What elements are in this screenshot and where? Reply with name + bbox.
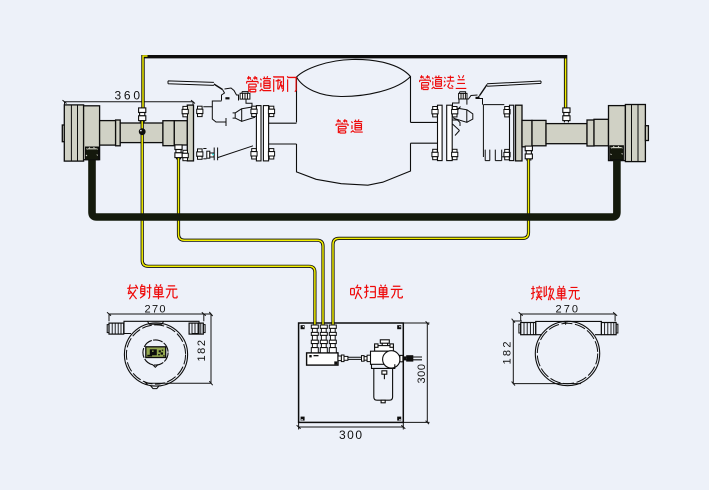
label 管道 pipe — [336, 119, 348, 133]
left transducer top fitting — [139, 108, 146, 123]
right pipe-valve flange pair — [438, 105, 453, 160]
body lower — [203, 146, 253, 160]
label 发射单元 transmit unit — [127, 284, 137, 299]
left transducer center dot — [139, 128, 146, 135]
svg-text:360: 360 — [115, 89, 141, 103]
stem nut — [240, 93, 250, 99]
bracket — [467, 95, 483, 105]
dim 300 purge bottom — [299, 422, 404, 429]
right outlet — [400, 355, 403, 361]
left connector — [521, 323, 536, 335]
feet — [485, 150, 502, 161]
yellow wire 3: right fitting to purge stack3 — [333, 158, 529, 326]
dim 270/182 right unit — [521, 314, 615, 321]
flange bolts (left pair) — [251, 106, 257, 116]
stem nut — [459, 93, 467, 99]
inner window circle — [143, 340, 168, 365]
svg-text:300: 300 — [416, 364, 428, 384]
manifold outlet to filter — [338, 355, 371, 362]
purge unit fitting stacks — [311, 325, 318, 353]
display — [146, 347, 166, 358]
yellow wire 2: left flange fitting to purge stack2 — [179, 156, 324, 326]
circle — [535, 321, 599, 385]
dim 270 left unit — [109, 314, 211, 383]
handle — [168, 81, 214, 86]
filter-regulator — [371, 340, 423, 403]
svg-text:182: 182 — [502, 342, 514, 365]
blob outline — [297, 59, 411, 122]
left valve-pipe flange pair — [256, 106, 268, 161]
manifold block — [307, 353, 338, 365]
label 接收单元 receive unit — [531, 286, 542, 300]
left gland — [86, 147, 99, 160]
label 吹扫单元 purge unit — [351, 285, 362, 299]
right gland — [610, 146, 624, 160]
dim 360 top-left — [65, 102, 194, 105]
svg-text:270: 270 — [145, 303, 166, 315]
small fitting with cyan — [207, 151, 210, 158]
left flange bottom fitting — [175, 145, 182, 160]
right connector — [601, 323, 616, 335]
yellow wire 1: left transducer dot to purge stack1 — [142, 121, 315, 326]
right top fitting — [563, 108, 570, 123]
bowtie mirrored — [454, 108, 473, 123]
svg-text:182: 182 — [196, 340, 208, 362]
right connector — [189, 323, 203, 334]
thick black cable between transducers — [92, 158, 617, 217]
bottom tab — [150, 385, 159, 388]
body upper outline — [203, 99, 252, 107]
label 管道法兰 pipe flange — [420, 75, 431, 89]
bowtie wedges — [233, 107, 255, 122]
dim 300 purge right — [403, 323, 429, 422]
flange bolts (right pair) — [432, 107, 438, 117]
right transducer flange bolts — [504, 107, 510, 117]
left connection stubs — [269, 123, 297, 144]
outer circle (faceted) — [124, 323, 187, 386]
svg-text:300: 300 — [339, 428, 362, 442]
top bar — [124, 321, 199, 333]
handle — [487, 81, 541, 86]
handle bracket — [222, 88, 239, 101]
left connector — [109, 323, 124, 334]
body outline — [453, 99, 505, 157]
right flange bottom fitting — [525, 146, 532, 161]
right connection stubs — [411, 122, 438, 143]
left transducer flange bolts — [182, 106, 188, 116]
svg-text:270: 270 — [556, 303, 579, 315]
top bar — [536, 321, 602, 334]
corner bolts — [301, 325, 402, 420]
label 管道阀门 pipe valve — [247, 76, 258, 92]
top rail cable — [143, 56, 566, 108]
